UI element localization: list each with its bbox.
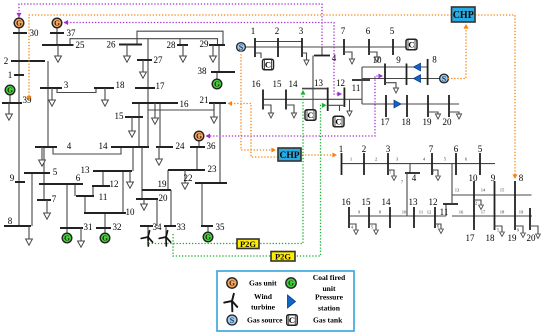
svg-text:G: G [64,234,70,243]
svg-text:24: 24 [176,141,186,151]
svg-text:10: 10 [373,55,383,65]
svg-text:C: C [335,117,341,127]
svg-text:6: 6 [454,144,459,154]
svg-text:17: 17 [381,117,391,127]
svg-text:16: 16 [342,197,352,207]
svg-text:12: 12 [336,78,345,88]
svg-text:28: 28 [167,40,177,50]
svg-text:8: 8 [8,216,13,226]
svg-text:16: 16 [252,79,262,89]
svg-text:2: 2 [4,56,9,66]
svg-text:26: 26 [107,40,117,50]
svg-text:3: 3 [64,80,69,90]
svg-text:14: 14 [481,188,486,193]
svg-text:turbine: turbine [251,303,276,312]
svg-text:13: 13 [409,197,419,207]
svg-text:6: 6 [76,173,81,183]
svg-text:16: 16 [459,210,464,215]
svg-text:Gas tank: Gas tank [313,316,343,325]
svg-text:G: G [7,86,13,95]
svg-text:Coal fired: Coal fired [313,273,346,282]
svg-text:19: 19 [158,179,168,189]
svg-text:23: 23 [208,164,218,174]
svg-text:P2G: P2G [240,239,256,249]
svg-text:29: 29 [200,39,210,49]
svg-text:9: 9 [396,55,401,65]
svg-text:station: station [318,304,341,313]
svg-text:17: 17 [156,81,166,91]
svg-text:7: 7 [52,194,57,204]
svg-text:13: 13 [455,188,460,193]
svg-text:G: G [54,19,60,28]
svg-text:9: 9 [491,173,496,183]
svg-text:14: 14 [382,197,392,207]
svg-text:Pressure: Pressure [315,293,344,302]
svg-text:5: 5 [390,26,395,36]
svg-text:8: 8 [432,55,437,65]
svg-text:8: 8 [519,173,524,183]
svg-text:33: 33 [177,222,187,232]
svg-text:C: C [265,60,271,70]
svg-text:4: 4 [332,53,337,63]
svg-text:1: 1 [8,70,13,80]
svg-text:17: 17 [481,210,486,215]
svg-text:11: 11 [352,83,361,93]
svg-text:C: C [408,40,414,50]
svg-text:18: 18 [500,210,505,215]
svg-text:G: G [102,234,108,243]
svg-text:16: 16 [180,99,190,109]
svg-text:G: G [196,132,202,141]
svg-text:12: 12 [427,210,432,215]
svg-text:Wind: Wind [254,292,273,301]
svg-text:19: 19 [508,233,518,243]
svg-text:G: G [214,80,220,89]
svg-text:36: 36 [207,141,217,151]
svg-text:13: 13 [81,165,91,175]
svg-text:15: 15 [500,188,505,193]
svg-text:2: 2 [362,144,367,154]
svg-text:15: 15 [273,79,283,89]
svg-text:7: 7 [341,26,346,36]
svg-text:2: 2 [275,26,280,36]
svg-text:9: 9 [10,173,15,183]
svg-text:12: 12 [110,179,119,189]
svg-text:CHP: CHP [279,151,299,161]
svg-text:3: 3 [299,26,304,36]
svg-text:20: 20 [443,117,453,127]
svg-text:34: 34 [153,222,163,232]
svg-text:7: 7 [429,144,434,154]
svg-text:14: 14 [99,141,109,151]
svg-text:14: 14 [289,79,299,89]
svg-text:Gas unit: Gas unit [249,279,277,288]
svg-text:19: 19 [423,117,433,127]
svg-text:1: 1 [251,26,256,36]
svg-text:17: 17 [466,233,476,243]
svg-text:11: 11 [440,207,449,217]
svg-text:G: G [205,233,211,242]
svg-text:18: 18 [486,233,496,243]
svg-text:15: 15 [362,197,372,207]
svg-text:31: 31 [84,222,93,232]
svg-text:10: 10 [126,207,136,217]
svg-text:13: 13 [314,78,324,88]
svg-text:G: G [16,19,22,28]
svg-text:25: 25 [76,40,86,50]
svg-text:S: S [230,316,235,325]
svg-text:30: 30 [30,28,40,38]
svg-text:10: 10 [402,210,407,215]
svg-text:S: S [442,74,447,83]
svg-text:12: 12 [429,197,438,207]
svg-text:11: 11 [419,210,424,215]
svg-text:11: 11 [99,192,108,202]
svg-text:22: 22 [184,173,193,183]
svg-text:32: 32 [113,222,122,232]
svg-text:G: G [229,279,235,288]
svg-text:C: C [289,315,295,325]
svg-text:C: C [307,110,313,120]
svg-text:19: 19 [519,210,524,215]
svg-text:3: 3 [386,144,391,154]
svg-text:35: 35 [216,222,226,232]
svg-text:5: 5 [478,144,483,154]
svg-text:21: 21 [200,95,209,105]
svg-text:CHP: CHP [453,10,474,21]
svg-text:5: 5 [53,167,58,177]
svg-text:P2G: P2G [275,251,291,261]
svg-text:1: 1 [339,144,344,154]
svg-text:18: 18 [116,80,126,90]
svg-text:10: 10 [469,173,479,183]
svg-text:20: 20 [527,233,537,243]
svg-text:38: 38 [198,66,208,76]
svg-text:4: 4 [412,173,417,183]
svg-text:4: 4 [67,141,72,151]
svg-text:Gas source: Gas source [247,316,283,325]
svg-text:27: 27 [154,55,164,65]
svg-text:37: 37 [67,28,77,38]
svg-text:18: 18 [402,117,412,127]
svg-text:20: 20 [159,193,169,203]
svg-text:G: G [288,279,294,288]
svg-text:6: 6 [366,26,371,36]
svg-text:S: S [239,43,244,52]
svg-text:15: 15 [115,111,125,121]
